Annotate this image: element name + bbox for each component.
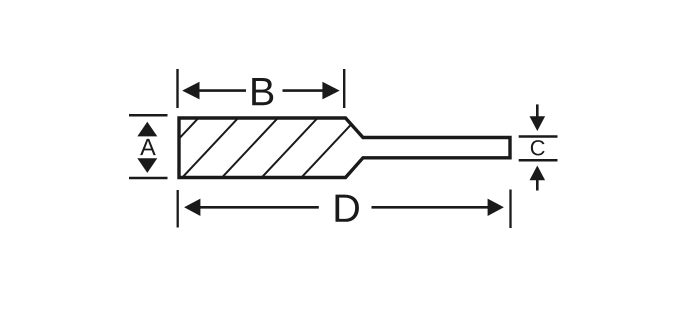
dimension B line left segment xyxy=(197,89,246,92)
burr body outline xyxy=(179,118,510,178)
dimension A down arrow xyxy=(137,158,157,173)
dimension C up arrow shaft xyxy=(536,179,539,190)
dimension D left extension line xyxy=(177,190,179,228)
hatch lines xyxy=(139,116,359,181)
dimension D line left segment xyxy=(198,206,319,209)
dimension B line right segment xyxy=(283,89,325,92)
dimension A top line xyxy=(129,114,168,117)
hatch line 3 xyxy=(219,116,280,181)
dimension C label xyxy=(531,140,545,155)
hatch line 5 (ends at bevel) xyxy=(298,116,359,181)
dimension D line right segment xyxy=(372,206,491,209)
dimension D label xyxy=(336,195,359,222)
dimension B right extension line xyxy=(343,69,345,108)
dimension C bottom line xyxy=(519,159,558,162)
dimension A label xyxy=(140,139,156,155)
dimension B label xyxy=(252,78,273,105)
hatch line 4 xyxy=(258,116,319,181)
dimension A up arrow xyxy=(137,122,157,137)
dimension B left extension line xyxy=(176,69,178,108)
dimension D right extension line xyxy=(509,190,511,229)
dimension B right arrow xyxy=(322,82,339,100)
dimension C top line xyxy=(519,135,558,138)
dimension A bottom line xyxy=(129,177,168,180)
dimension D right arrow xyxy=(488,199,504,216)
hatch line 1 (partial, top-left) xyxy=(139,116,200,181)
dimension D left arrow xyxy=(184,199,200,216)
dimension C down arrow head xyxy=(530,116,546,131)
dimension B left arrow xyxy=(182,82,199,100)
hatch line 2 xyxy=(179,116,240,181)
dimension C up arrow head xyxy=(530,166,546,181)
dimension C down arrow shaft xyxy=(536,104,539,117)
